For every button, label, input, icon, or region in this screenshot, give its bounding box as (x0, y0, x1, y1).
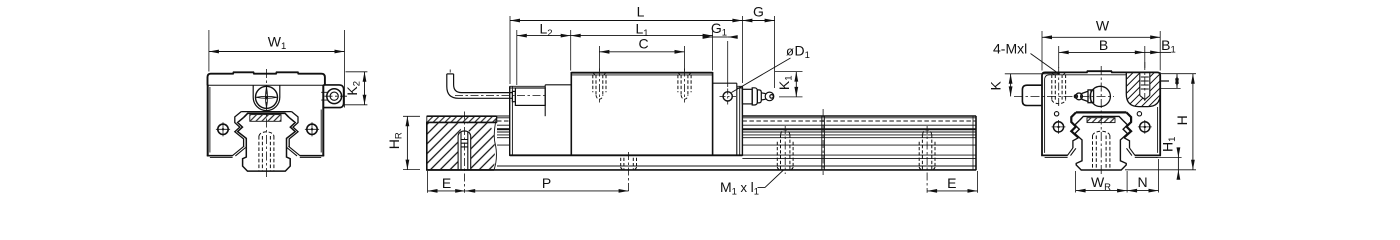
dimension W1 (209, 30, 345, 108)
rail section top (244, 113, 289, 117)
carriage wing bottoms (1041, 154, 1067, 156)
carriage body sides (207, 85, 209, 156)
svg-text:C: C (638, 36, 648, 52)
end cap right (736, 83, 738, 156)
rail section top (1080, 116, 1123, 120)
carriage mounting hole 1 (593, 69, 606, 103)
rail end right (975, 116, 977, 170)
rail fixing bolt in section (458, 131, 471, 170)
grease nipple in section (1074, 86, 1110, 106)
dimension G1 (703, 20, 737, 87)
locating pin holes (1054, 112, 1058, 116)
carriage bottom edge (510, 154, 743, 156)
svg-text:E: E (947, 175, 956, 191)
rail side view horizontal lines (427, 116, 976, 170)
svg-text:P: P (542, 175, 551, 191)
dimension B1 (1145, 37, 1176, 56)
rail hole under carriage (621, 152, 637, 193)
wing seal chamfers (1067, 148, 1135, 156)
lug connector lines (321, 92, 327, 100)
rail bottom hole 2 (919, 126, 935, 193)
rail butt joint (822, 109, 825, 175)
sectioned pocket hatch (1126, 72, 1160, 106)
svg-text:N: N (1137, 174, 1147, 190)
dimension G (742, 4, 774, 88)
grease port circle right end (723, 92, 732, 101)
right view centerline (1100, 66, 1102, 176)
end screw right (1138, 120, 1152, 134)
end screw left (1052, 120, 1066, 134)
block break line (494, 116, 497, 170)
end seal plates right (739, 86, 741, 156)
rail bottom hole 1 (M1xl1) (777, 126, 793, 174)
end seal plates left (509, 86, 511, 156)
pipe centerline (449, 70, 451, 73)
carriage face inset lines (209, 87, 211, 153)
grease plug circle with cross recess (256, 86, 278, 108)
end cap left (544, 85, 546, 116)
dimension W (1042, 17, 1160, 70)
rail bolt hole hidden (1093, 131, 1110, 170)
dimension K (987, 74, 1060, 97)
sectioned rail block body (427, 122, 497, 169)
carriage top cap outline (208, 72, 325, 85)
rail section profile (1075, 120, 1128, 170)
pipe fitting block (512, 88, 545, 105)
carriage cap shoulder line (208, 84, 325, 86)
bolt centerline (463, 112, 465, 193)
nipple centerline (1014, 95, 1114, 97)
tapped hole in section (1140, 72, 1150, 99)
svg-text:H: H (1174, 115, 1190, 125)
dimension E right (927, 171, 977, 193)
svg-text:E: E (442, 175, 451, 191)
rail section hatched band (250, 115, 281, 122)
label 4-Mxl with leader (993, 41, 1059, 74)
dimension L1 (571, 20, 713, 70)
sectioned pocket outline (1126, 72, 1160, 106)
dimension B (1059, 37, 1145, 68)
svg-text:G: G (753, 4, 764, 20)
cavity profile bold (1071, 112, 1131, 137)
dimension P (465, 175, 628, 191)
carriage body top edge (571, 72, 712, 74)
carriage body outline (1042, 71, 1160, 155)
carriage wing bottoms (207, 155, 233, 157)
rail hatch band (1087, 118, 1115, 123)
dimension T (1156, 74, 1196, 89)
side grease lug (323, 85, 343, 108)
carriage body sides (570, 72, 572, 156)
sectioned rail block hatch band (427, 116, 497, 122)
wing seal chamfer left (232, 146, 245, 156)
tapped hole 4-Mxl hidden (1052, 67, 1066, 108)
svg-text:B: B (1099, 37, 1108, 53)
svg-text:M1 x l1: M1 x l1 (720, 179, 759, 198)
svg-text:L: L (637, 4, 645, 20)
label D1 with leader (732, 43, 810, 93)
svg-text:W: W (1096, 17, 1110, 33)
grease plug housing top center (253, 85, 280, 110)
lug grease hole circles (327, 89, 342, 104)
svg-text:4-Mxl: 4-Mxl (993, 41, 1027, 57)
dimension L (510, 4, 742, 84)
grease boss left (1022, 85, 1042, 105)
wing seal chamfer right (287, 146, 300, 156)
dimension WR (1076, 171, 1128, 193)
carriage face inset outline (1045, 75, 1158, 153)
left view centerline (265, 69, 267, 177)
dimension K2 (344, 72, 368, 105)
dimension H1 (1156, 137, 1182, 177)
dimension N (1127, 159, 1158, 193)
end cap screw right (305, 122, 319, 136)
svg-text:K: K (987, 80, 1003, 90)
bent grease pipe (447, 74, 513, 98)
grease nipple side (742, 88, 773, 105)
dimension H (1125, 74, 1196, 170)
rail section profile (238, 117, 296, 171)
carriage mounting hole 2 (678, 69, 691, 103)
lug centerline (325, 95, 348, 97)
dimension C (599, 36, 684, 71)
dimension E left (428, 171, 466, 193)
block top edge (427, 115, 497, 117)
end cap screw left (216, 122, 230, 136)
label M1 x l1 with leader (720, 170, 784, 197)
dimension L2 (517, 20, 571, 85)
dimension HR (386, 116, 420, 169)
rail bolt hole hidden (259, 132, 274, 171)
svg-text:T: T (1156, 76, 1172, 85)
dimension K1 (775, 72, 803, 97)
carriage cavity profile (235, 112, 298, 147)
svg-text:ø: ø (786, 43, 794, 58)
